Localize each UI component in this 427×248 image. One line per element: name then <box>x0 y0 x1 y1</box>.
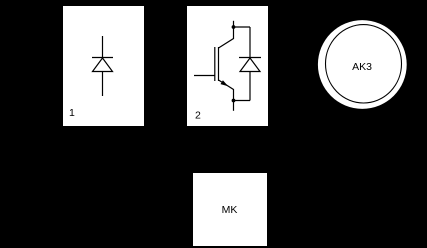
wire: D1 anode lead <box>102 72 104 97</box>
svg-text:MK: MK <box>222 204 238 216</box>
wire: D2 anode lead <box>249 72 251 101</box>
diode D1 <box>92 58 113 72</box>
diode D2 (freewheeling) <box>239 58 261 72</box>
wire: emitter node to D2 anode <box>234 100 251 102</box>
wire: D1 cathode lead <box>102 36 104 58</box>
svg-text:2: 2 <box>195 109 201 121</box>
wire: D2 cathode lead <box>249 27 251 58</box>
module box 1 (diode module) <box>63 6 144 126</box>
module box 2 (IGBT module) <box>187 6 268 126</box>
module box MK <box>193 173 267 246</box>
wire: emitter stub <box>233 101 235 111</box>
svg-text:1: 1 <box>69 107 75 119</box>
terminal AK3 disc <box>318 20 407 109</box>
terminal AK3 ring <box>326 25 402 103</box>
svg-text:AK3: AK3 <box>352 61 372 73</box>
junction: emitter node <box>232 99 236 103</box>
transistor Q2 (IGBT) <box>194 27 234 101</box>
wire: collector stub <box>233 21 235 27</box>
wire: collector node to D2 cathode <box>234 26 251 28</box>
junction: collector node <box>232 25 236 29</box>
